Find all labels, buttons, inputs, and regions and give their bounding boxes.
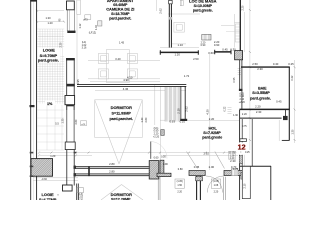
svg-text:+2.20: +2.20 (239, 101, 246, 104)
svg-text:LOGIE: LOGIE (41, 192, 54, 197)
svg-text:0.22: 0.22 (291, 75, 294, 80)
svg-text:0.60: 0.60 (208, 51, 214, 55)
svg-text:CAMERA DE ZI: CAMERA DE ZI (106, 7, 134, 12)
svg-text:S=10.00MP: S=10.00MP (194, 4, 213, 8)
svg-text:2.62: 2.62 (185, 106, 189, 112)
svg-text:3.16: 3.16 (82, 47, 87, 50)
svg-text:-0.30: -0.30 (41, 178, 47, 181)
svg-text:1.20: 1.20 (174, 53, 180, 57)
svg-text:pard.parchet.: pard.parchet. (109, 17, 131, 21)
svg-text:2.60: 2.60 (75, 119, 78, 124)
svg-text:2.20: 2.20 (241, 5, 244, 10)
svg-text:S=9.70MP: S=9.70MP (40, 54, 58, 58)
svg-text:1.40: 1.40 (141, 117, 144, 122)
svg-text:0.30: 0.30 (230, 47, 236, 51)
svg-text:pard.gresie: pard.gresie (202, 136, 222, 140)
svg-text:3.95: 3.95 (76, 79, 80, 85)
svg-text:1.30: 1.30 (233, 114, 238, 117)
svg-text:2.30: 2.30 (256, 110, 262, 114)
svg-text:LOC DE MASA: LOC DE MASA (189, 0, 217, 3)
svg-text:2.50: 2.50 (193, 57, 199, 61)
svg-text:2.20: 2.20 (242, 113, 247, 116)
svg-text:5.5: 5.5 (55, 123, 59, 126)
svg-text:1.12: 1.12 (79, 23, 82, 28)
svg-text:1%: 1% (47, 102, 53, 106)
svg-text:2.20: 2.20 (209, 117, 215, 121)
svg-text:2.20: 2.20 (78, 198, 83, 200)
svg-text:0.45: 0.45 (222, 47, 228, 51)
svg-text:DORMITOR: DORMITOR (111, 192, 132, 197)
svg-text:pard.gresie.: pard.gresie. (38, 59, 59, 63)
svg-text:0.90: 0.90 (214, 43, 220, 47)
svg-text:1.45: 1.45 (119, 41, 125, 45)
svg-text:4.36: 4.36 (123, 87, 129, 91)
svg-text:S=12.28MP: S=12.28MP (111, 198, 131, 200)
svg-text:1.08: 1.08 (214, 184, 219, 187)
svg-text:1.72: 1.72 (184, 74, 190, 78)
svg-text:S=4.77MP: S=4.77MP (39, 198, 57, 200)
svg-text:(1.05): (1.05) (213, 180, 219, 183)
svg-text:1.50: 1.50 (177, 184, 182, 187)
svg-text:(LF1Z): (LF1Z) (89, 31, 96, 34)
svg-text:S=11.93MP: S=11.93MP (112, 111, 132, 115)
svg-text:0.45: 0.45 (194, 165, 200, 169)
svg-text:1.02: 1.02 (95, 24, 98, 29)
svg-text:0.80: 0.80 (178, 168, 183, 171)
svg-text:+2.20: +2.20 (153, 135, 160, 138)
svg-text:1.20: 1.20 (50, 154, 56, 158)
svg-text:S=7.92MP: S=7.92MP (203, 131, 221, 135)
svg-text:2.80: 2.80 (109, 169, 115, 173)
svg-text:4.90: 4.90 (123, 78, 129, 82)
svg-text:0.22: 0.22 (224, 106, 227, 111)
svg-text:0.93: 0.93 (169, 120, 175, 124)
svg-text:0.45: 0.45 (276, 99, 282, 103)
svg-text:2.50: 2.50 (252, 62, 258, 66)
svg-text:1.30: 1.30 (45, 16, 51, 20)
svg-text:0.25: 0.25 (245, 151, 250, 154)
svg-text:0.90: 0.90 (163, 163, 168, 166)
svg-text:1.20: 1.20 (47, 21, 53, 25)
svg-text:DORMITOR: DORMITOR (111, 105, 132, 110)
svg-text:0.10: 0.10 (180, 120, 186, 124)
svg-text:LOGIE: LOGIE (43, 48, 56, 53)
svg-text:4.30: 4.30 (205, 109, 209, 115)
svg-text:(1.05): (1.05) (177, 180, 183, 183)
svg-text:2.62: 2.62 (159, 8, 163, 14)
svg-text:2.92: 2.92 (203, 151, 209, 155)
svg-text:2.60: 2.60 (145, 117, 148, 122)
svg-text:2.20: 2.20 (255, 104, 261, 108)
svg-text:øT3: øT3 (83, 19, 88, 22)
svg-text:2.20: 2.20 (177, 190, 182, 193)
svg-text:3.40: 3.40 (115, 57, 121, 61)
svg-text:0.70: 0.70 (231, 165, 237, 169)
svg-text:2.20: 2.20 (230, 157, 235, 160)
svg-text:S=18.70MP: S=18.70MP (111, 12, 130, 16)
svg-text:0.60: 0.60 (154, 157, 159, 160)
svg-text:1.10: 1.10 (177, 43, 183, 47)
svg-text:1.30: 1.30 (291, 129, 294, 134)
svg-text:BAIE: BAIE (258, 87, 267, 91)
svg-text:0.25: 0.25 (288, 62, 294, 66)
svg-text:2.10: 2.10 (243, 183, 246, 188)
svg-text:2.20: 2.20 (214, 190, 219, 193)
svg-text:0.90: 0.90 (201, 44, 206, 47)
svg-text:2.10: 2.10 (176, 108, 180, 114)
svg-text:pard.gresie.: pard.gresie. (193, 9, 213, 13)
svg-text:2.00: 2.00 (209, 165, 215, 169)
svg-text:pard.gresie.: pard.gresie. (250, 97, 271, 101)
svg-text:2.20: 2.20 (59, 42, 62, 47)
svg-text:0.75: 0.75 (242, 125, 247, 128)
svg-text:0.30: 0.30 (161, 155, 166, 158)
svg-text:2.30: 2.30 (257, 67, 263, 71)
svg-text:0.95: 0.95 (233, 77, 236, 82)
svg-text:2.80: 2.80 (109, 162, 115, 166)
svg-text:pard.parchet.: pard.parchet. (109, 117, 132, 121)
svg-text:HOL: HOL (208, 125, 217, 130)
svg-text:S=3.55MP: S=3.55MP (252, 91, 270, 95)
svg-text:1.35: 1.35 (62, 118, 65, 123)
svg-text:0.40: 0.40 (273, 62, 279, 66)
